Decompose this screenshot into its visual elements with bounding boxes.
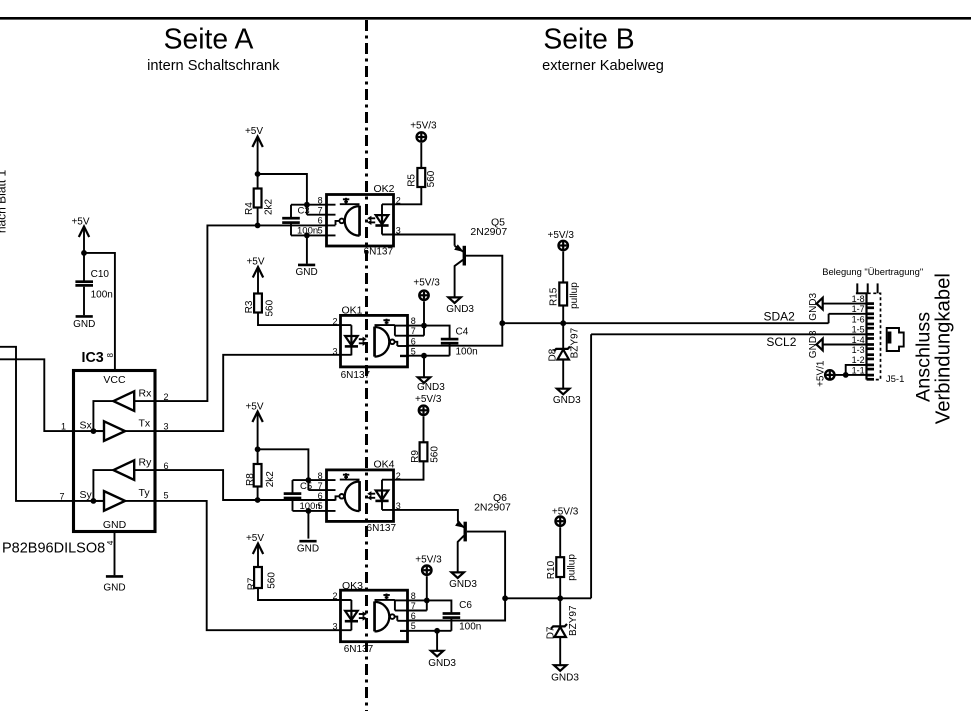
svg-text:5: 5 xyxy=(411,621,416,631)
svg-text:GND3: GND3 xyxy=(428,658,456,669)
svg-text:GND3: GND3 xyxy=(417,382,445,393)
svg-text:R4: R4 xyxy=(244,202,255,215)
svg-text:C3: C3 xyxy=(298,206,310,217)
svg-text:GND3: GND3 xyxy=(551,672,579,683)
svg-text:7: 7 xyxy=(411,326,416,336)
svg-text:R7: R7 xyxy=(246,577,257,590)
svg-text:OK1: OK1 xyxy=(342,305,363,317)
svg-text:GND3: GND3 xyxy=(808,330,819,358)
svg-text:SCL2: SCL2 xyxy=(766,335,796,349)
svg-text:GND: GND xyxy=(103,582,125,593)
svg-text:IC3: IC3 xyxy=(82,350,104,366)
svg-text:R15: R15 xyxy=(549,287,560,306)
svg-text:R8: R8 xyxy=(245,473,256,486)
svg-text:2k2: 2k2 xyxy=(263,198,274,215)
svg-text:Sy: Sy xyxy=(80,489,93,501)
svg-text:2: 2 xyxy=(332,316,337,326)
svg-text:4: 4 xyxy=(106,540,115,545)
svg-text:1-5: 1-5 xyxy=(852,325,865,335)
svg-text:560: 560 xyxy=(429,446,440,463)
svg-text:R3: R3 xyxy=(244,300,255,313)
svg-text:OK4: OK4 xyxy=(373,459,394,471)
svg-text:BZY97: BZY97 xyxy=(569,327,580,358)
svg-text:intern Schaltschrank: intern Schaltschrank xyxy=(147,58,280,74)
svg-text:7: 7 xyxy=(318,206,323,216)
svg-text:R9: R9 xyxy=(410,450,421,463)
svg-text:+5V: +5V xyxy=(71,217,89,228)
svg-text:GND3: GND3 xyxy=(553,395,581,406)
svg-text:+5V/3: +5V/3 xyxy=(552,507,579,518)
svg-text:R5: R5 xyxy=(406,174,417,187)
svg-text:8: 8 xyxy=(318,195,323,205)
svg-text:1-7: 1-7 xyxy=(852,304,865,314)
svg-text:+5V: +5V xyxy=(246,257,264,268)
svg-text:100n: 100n xyxy=(456,346,478,357)
svg-text:6: 6 xyxy=(318,215,323,225)
svg-text:2k2: 2k2 xyxy=(265,471,276,488)
svg-text:Verbindungkabel: Verbindungkabel xyxy=(932,273,954,424)
svg-text:D7: D7 xyxy=(545,626,556,639)
svg-text:5: 5 xyxy=(318,225,323,235)
svg-text:560: 560 xyxy=(426,170,437,187)
svg-text:3: 3 xyxy=(163,422,168,432)
svg-text:8: 8 xyxy=(106,353,115,358)
svg-text:OK3: OK3 xyxy=(342,580,363,592)
svg-text:+5V/3: +5V/3 xyxy=(415,554,442,565)
svg-text:7: 7 xyxy=(59,492,64,502)
svg-text:6N137: 6N137 xyxy=(344,644,374,655)
svg-text:7: 7 xyxy=(411,601,416,611)
svg-text:8: 8 xyxy=(411,591,416,601)
svg-text:C5: C5 xyxy=(300,481,312,492)
svg-text:+5V/3: +5V/3 xyxy=(410,121,437,132)
svg-text:+5V/3: +5V/3 xyxy=(413,278,440,289)
svg-text:5: 5 xyxy=(163,491,168,501)
svg-text:GND3: GND3 xyxy=(808,292,819,320)
svg-text:GND3: GND3 xyxy=(446,304,474,315)
svg-text:100n: 100n xyxy=(297,226,318,237)
svg-text:1: 1 xyxy=(61,422,66,432)
svg-text:nach Blatt 1: nach Blatt 1 xyxy=(0,169,8,233)
svg-text:2N2907: 2N2907 xyxy=(474,501,511,513)
svg-text:2: 2 xyxy=(332,591,337,601)
svg-text:6N137: 6N137 xyxy=(367,523,397,534)
svg-text:8: 8 xyxy=(411,316,416,326)
svg-text:Seite A: Seite A xyxy=(164,23,254,55)
svg-text:7: 7 xyxy=(318,481,323,491)
svg-text:560: 560 xyxy=(267,572,278,589)
svg-text:+5V: +5V xyxy=(245,402,263,413)
svg-text:+5V: +5V xyxy=(246,533,264,544)
svg-text:J5-1: J5-1 xyxy=(886,374,904,385)
svg-text:R10: R10 xyxy=(546,560,557,579)
svg-text:8: 8 xyxy=(318,471,323,481)
svg-text:D8: D8 xyxy=(548,348,559,361)
svg-text:Anschluss: Anschluss xyxy=(913,312,935,402)
svg-text:100n: 100n xyxy=(459,621,481,632)
svg-text:C10: C10 xyxy=(91,269,110,280)
svg-text:Rx: Rx xyxy=(139,388,153,400)
svg-text:+5V/3: +5V/3 xyxy=(415,394,442,405)
svg-text:6N137: 6N137 xyxy=(341,370,371,381)
svg-text:SDA2: SDA2 xyxy=(764,309,796,323)
svg-text:1-1: 1-1 xyxy=(852,365,865,375)
svg-text:pullup: pullup xyxy=(569,282,580,309)
svg-text:5: 5 xyxy=(318,501,323,511)
svg-text:1-6: 1-6 xyxy=(852,314,865,324)
svg-text:1-3: 1-3 xyxy=(852,345,865,355)
svg-text:GND3: GND3 xyxy=(449,579,477,590)
svg-text:P82B96DILSO8: P82B96DILSO8 xyxy=(2,541,105,557)
svg-text:100n: 100n xyxy=(91,290,113,301)
svg-text:1-2: 1-2 xyxy=(852,355,865,365)
svg-text:GND: GND xyxy=(103,519,127,531)
svg-text:+5V: +5V xyxy=(245,126,263,137)
svg-text:Sx: Sx xyxy=(80,419,93,431)
svg-text:560: 560 xyxy=(264,299,275,316)
svg-text:GND: GND xyxy=(295,267,317,278)
svg-text:OK2: OK2 xyxy=(373,183,394,195)
svg-text:1-4: 1-4 xyxy=(852,335,865,345)
svg-text:GND: GND xyxy=(297,544,319,555)
svg-text:3: 3 xyxy=(332,347,337,357)
svg-text:Belegung "Übertragung": Belegung "Übertragung" xyxy=(822,266,923,277)
svg-text:Tx: Tx xyxy=(139,418,151,430)
svg-text:Seite B: Seite B xyxy=(543,23,634,55)
svg-text:BZY97: BZY97 xyxy=(568,605,579,636)
svg-text:+5V/3: +5V/3 xyxy=(547,230,574,241)
svg-text:Ty: Ty xyxy=(139,487,151,499)
svg-text:externer Kabelweg: externer Kabelweg xyxy=(542,58,664,74)
svg-text:GND: GND xyxy=(73,319,95,330)
svg-text:VCC: VCC xyxy=(103,374,126,386)
svg-text:6N137: 6N137 xyxy=(364,246,394,257)
svg-text:Ry: Ry xyxy=(139,457,153,469)
svg-text:C4: C4 xyxy=(456,327,469,338)
svg-text:2N2907: 2N2907 xyxy=(470,226,507,238)
svg-text:pullup: pullup xyxy=(567,554,578,581)
svg-text:1-8: 1-8 xyxy=(852,294,865,304)
svg-text:C6: C6 xyxy=(459,600,472,611)
